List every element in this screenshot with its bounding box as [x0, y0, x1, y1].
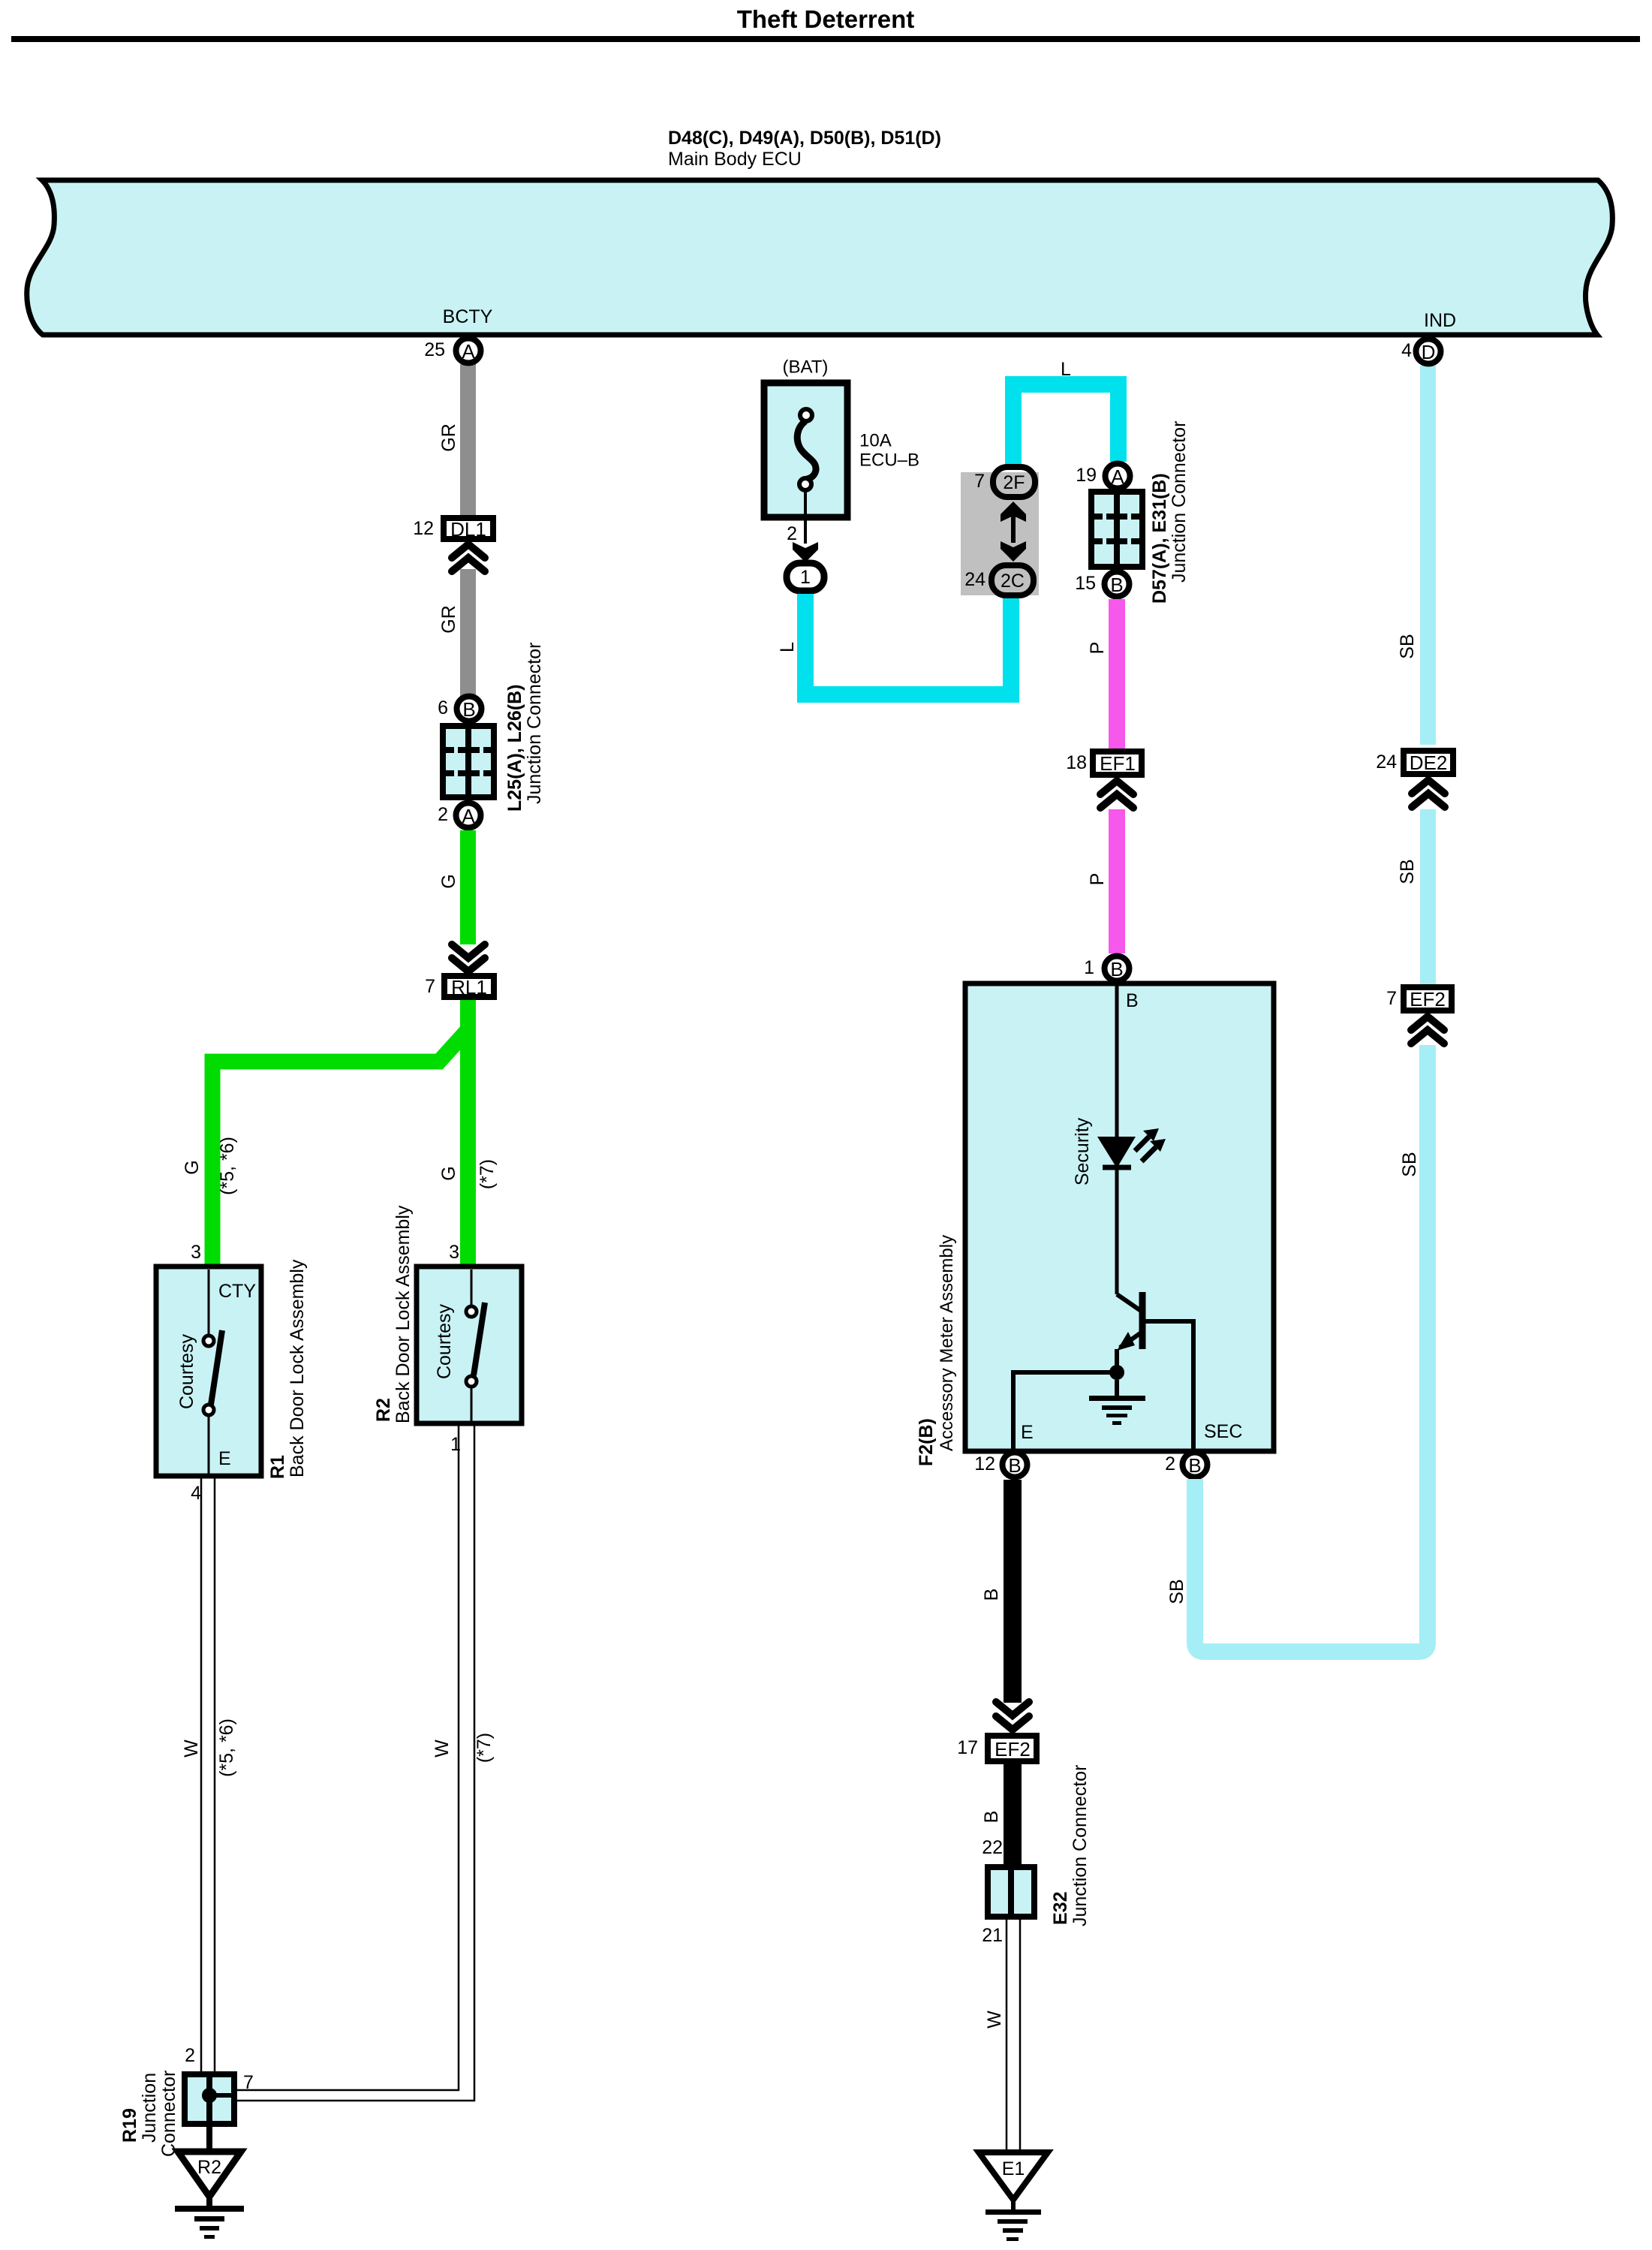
connector DL1	[444, 518, 493, 539]
pin 2 B	[1183, 1453, 1208, 1477]
wire P from EF1 to meter pin 1	[1109, 809, 1125, 953]
svg-text:Back Door Lock Assembly: Back Door Lock Assembly	[287, 1259, 308, 1477]
title rule	[11, 36, 1640, 42]
pin 1 B	[1105, 956, 1130, 981]
svg-text:F2(B): F2(B)	[916, 1418, 937, 1466]
wire G from junction A to RL1	[460, 830, 476, 944]
internal ground	[1089, 1380, 1145, 1425]
svg-text:B: B	[462, 698, 475, 721]
svg-text:10A: 10A	[859, 431, 892, 451]
wire W from R2 to R19 pin 7	[237, 1423, 474, 2101]
svg-text:17: 17	[957, 1737, 978, 1758]
svg-text:Junction: Junction	[139, 2073, 160, 2143]
svg-text:Accessory Meter Assembly: Accessory Meter Assembly	[937, 1235, 957, 1451]
junction grid box L25/L26	[443, 726, 494, 797]
wire GR from pin A to DL1	[460, 364, 476, 517]
back door lock assembly R2	[417, 1267, 522, 1423]
back door lock assembly R1	[156, 1267, 261, 1476]
svg-text:GR: GR	[438, 423, 459, 452]
svg-text:D48(C), D49(A), D50(B), D51(D): D48(C), D49(A), D50(B), D51(D)	[668, 128, 941, 149]
svg-text:G: G	[182, 1160, 203, 1174]
pin 4 D of ECU	[1420, 366, 1436, 745]
chevrons above EF2 (pointing down)	[996, 1702, 1029, 1730]
meter box	[965, 983, 1274, 1451]
chevrons below EF1 (pointing up)	[1100, 781, 1133, 808]
pin 15 B	[1105, 572, 1130, 597]
svg-text:24: 24	[1376, 752, 1397, 773]
arrow into terminal 1	[793, 542, 818, 562]
svg-text:24: 24	[964, 569, 985, 590]
svg-text:EF1: EF1	[1100, 752, 1136, 775]
Main Body ECU band (D48/D49/D50/D51)	[27, 180, 1613, 335]
wire W from R1 to R19	[201, 1476, 215, 2073]
svg-text:4: 4	[1401, 340, 1412, 361]
wire from dot to E column	[1013, 1372, 1117, 1449]
svg-text:W: W	[181, 1739, 202, 1758]
fuse pin 2 lead	[804, 489, 807, 544]
svg-text:2F: 2F	[1003, 472, 1025, 493]
svg-text:D57(A), E31(B): D57(A), E31(B)	[1149, 473, 1170, 604]
connector DE2	[1404, 751, 1453, 774]
svg-text:B: B	[1110, 958, 1123, 980]
pin 6 B	[457, 697, 482, 721]
svg-text:Junction Connector: Junction Connector	[1070, 1765, 1091, 1926]
wire GR from DL1 to junction B	[460, 569, 476, 697]
svg-text:DE2: DE2	[1410, 752, 1448, 774]
svg-text:A: A	[462, 805, 475, 827]
svg-text:CTY: CTY	[218, 1281, 256, 1302]
svg-text:EF2: EF2	[1410, 988, 1446, 1011]
svg-text:2: 2	[1165, 1453, 1175, 1474]
svg-text:B: B	[981, 1811, 1002, 1824]
wire P from D57 B to EF1	[1109, 599, 1125, 748]
svg-text:Junction Connector: Junction Connector	[1169, 421, 1190, 583]
svg-text:D: D	[1422, 341, 1436, 363]
svg-text:2: 2	[185, 2045, 195, 2066]
wire SB from DE2 to EF2	[1420, 809, 1436, 984]
LED light arrows	[1135, 1128, 1166, 1161]
svg-text:2: 2	[787, 523, 797, 544]
ground E1	[979, 2152, 1048, 2241]
svg-text:22: 22	[982, 1837, 1003, 1858]
svg-text:SB: SB	[1399, 1152, 1420, 1176]
svg-text:EF2: EF2	[995, 1738, 1031, 1761]
svg-text:7: 7	[425, 976, 435, 997]
svg-text:R19: R19	[119, 2108, 140, 2143]
svg-text:L: L	[1061, 359, 1071, 380]
svg-text:E1: E1	[1002, 2158, 1025, 2179]
chevrons above RL1 (pointing down)	[452, 944, 485, 971]
svg-text:SB: SB	[1397, 859, 1418, 884]
svg-text:DL1: DL1	[450, 518, 486, 541]
svg-text:1: 1	[800, 567, 811, 588]
pin 19 A	[1106, 464, 1130, 489]
terminal oval 2F	[993, 467, 1035, 497]
pin 25 A of ECU	[456, 339, 481, 363]
svg-text:P: P	[1087, 642, 1108, 655]
svg-text:12: 12	[974, 1453, 995, 1474]
svg-text:Junction Connector: Junction Connector	[524, 643, 545, 804]
gray splice block	[961, 472, 1039, 595]
svg-text:Main Body ECU: Main Body ECU	[668, 149, 802, 170]
svg-text:SB: SB	[1397, 634, 1418, 658]
svg-text:SB: SB	[1166, 1579, 1187, 1604]
svg-text:B: B	[1188, 1454, 1201, 1477]
svg-text:A: A	[462, 340, 475, 363]
svg-text:B: B	[1126, 990, 1139, 1011]
svg-text:Back Door Lock Assembly: Back Door Lock Assembly	[393, 1205, 414, 1423]
svg-text:Courtesy: Courtesy	[434, 1303, 455, 1379]
wire SB loop from EF2 down to meter pin 2	[1195, 1045, 1428, 1652]
wire B from pin 12 to EF2	[1004, 1480, 1022, 1703]
junction connector E32	[988, 1867, 1034, 1917]
svg-text:25: 25	[424, 339, 445, 360]
svg-text:A: A	[1111, 465, 1124, 488]
svg-text:E: E	[1021, 1422, 1034, 1443]
chevrons below DL1 (pointing up)	[452, 544, 485, 571]
svg-text:19: 19	[1076, 465, 1097, 486]
svg-text:7: 7	[974, 471, 985, 492]
chevrons below EF2 right (pointing up)	[1411, 1017, 1444, 1044]
connector RL1	[444, 976, 494, 997]
svg-text:15: 15	[1075, 573, 1096, 594]
svg-text:P: P	[1087, 873, 1108, 886]
svg-text:GR: GR	[438, 605, 459, 634]
wire W from E32 to E1	[1007, 1920, 1020, 2151]
junction grid box D57/E31	[1091, 492, 1142, 567]
svg-text:B: B	[1008, 1454, 1021, 1477]
svg-text:6: 6	[438, 697, 448, 718]
connector EF1	[1093, 752, 1142, 775]
chevrons below DE2 (pointing up)	[1412, 780, 1445, 807]
svg-text:E32: E32	[1050, 1892, 1071, 1925]
svg-text:G: G	[438, 874, 459, 888]
svg-text:21: 21	[982, 1925, 1003, 1946]
svg-text:BCTY: BCTY	[443, 306, 493, 327]
svg-text:3: 3	[449, 1242, 459, 1263]
svg-text:2: 2	[438, 804, 448, 825]
svg-text:B: B	[981, 1589, 1002, 1601]
svg-text:L: L	[777, 642, 798, 652]
LED lamp Security	[1097, 984, 1136, 1294]
svg-text:L25(A), L26(B): L25(A), L26(B)	[504, 685, 525, 812]
wire L loop from terminal 1 to 2C	[805, 594, 1011, 694]
svg-text:3: 3	[191, 1242, 201, 1263]
svg-text:R2: R2	[373, 1398, 394, 1422]
svg-text:W: W	[432, 1739, 453, 1758]
svg-text:IND: IND	[1424, 310, 1456, 331]
svg-text:G: G	[438, 1166, 459, 1180]
svg-text:18: 18	[1066, 752, 1087, 773]
ground R2	[175, 2124, 244, 2239]
wire G branch to R1	[212, 1030, 468, 1267]
svg-text:7: 7	[243, 2072, 254, 2093]
svg-text:RL1: RL1	[451, 976, 487, 998]
svg-text:ECU–B: ECU–B	[859, 450, 919, 471]
transistor Q (NPN)	[1117, 1292, 1193, 1449]
svg-text:Courtesy: Courtesy	[176, 1333, 197, 1409]
connector EF2 (right)	[1404, 987, 1452, 1011]
svg-text:Theft Deterrent: Theft Deterrent	[737, 5, 915, 33]
wire G below RL1 down to R2	[460, 1000, 476, 1267]
svg-text:Security: Security	[1072, 1117, 1093, 1185]
svg-text:4: 4	[191, 1483, 201, 1504]
wire L n-shape from 2F to D57 A	[1013, 384, 1118, 466]
svg-text:B: B	[1110, 574, 1123, 596]
svg-text:W: W	[984, 2011, 1005, 2029]
svg-text:2C: 2C	[1001, 571, 1025, 592]
wire B from EF2 to E32	[1004, 1764, 1022, 1864]
svg-text:1: 1	[1084, 957, 1094, 978]
svg-text:(*5, *6): (*5, *6)	[216, 1718, 237, 1777]
svg-text:(BAT): (BAT)	[783, 357, 829, 378]
svg-text:R2: R2	[197, 2157, 221, 2178]
svg-text:(*7): (*7)	[474, 1733, 495, 1763]
svg-text:7: 7	[1386, 988, 1397, 1009]
double arrow between 2F and 2C	[1001, 502, 1026, 562]
svg-text:SEC: SEC	[1204, 1421, 1242, 1442]
connector EF2 (bottom)	[988, 1736, 1037, 1761]
terminal oval 2C	[992, 565, 1034, 595]
pin 12 B	[1003, 1453, 1028, 1477]
terminal oval 1	[787, 563, 824, 591]
svg-text:E: E	[218, 1448, 231, 1469]
svg-text:(*5, *6): (*5, *6)	[217, 1137, 238, 1195]
svg-text:(*7): (*7)	[477, 1159, 498, 1189]
pin 2 A	[456, 803, 481, 828]
svg-text:12: 12	[413, 518, 434, 539]
svg-text:Connector: Connector	[158, 2071, 179, 2157]
svg-text:R1: R1	[267, 1455, 288, 1479]
junction dot	[1109, 1365, 1124, 1380]
